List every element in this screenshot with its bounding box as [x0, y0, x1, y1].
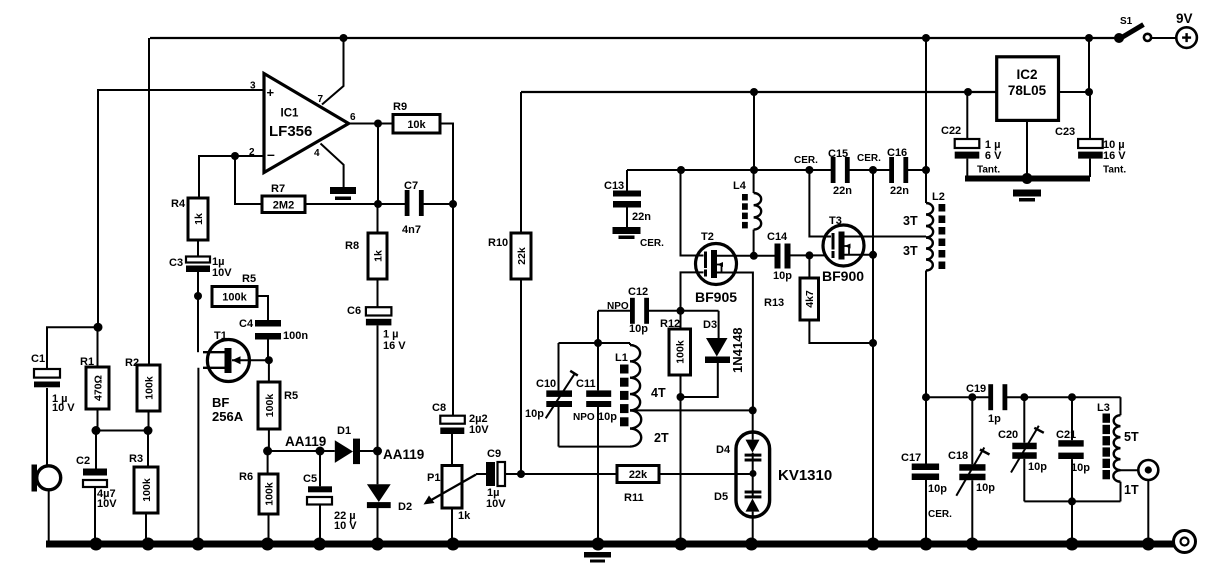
- svg-text:22n: 22n: [833, 185, 852, 197]
- svg-text:R5: R5: [242, 273, 256, 285]
- node R13 ground junction: [869, 339, 877, 347]
- diode D1 AA119: [285, 425, 424, 464]
- node R13 top junction: [805, 251, 813, 259]
- wire R12 top: [680, 311, 682, 329]
- wire ground bus rail: [46, 541, 1174, 548]
- resistor R5 upper: [212, 273, 257, 307]
- svg-text:10p: 10p: [598, 411, 617, 423]
- svg-text:10p: 10p: [1028, 461, 1047, 473]
- wire T1 drain to gate-bias node: [197, 296, 199, 352]
- wire R2 bottom: [148, 411, 150, 431]
- resistor R13: [764, 278, 819, 320]
- capacitor C6: [347, 305, 406, 352]
- svg-text:R13: R13: [764, 297, 784, 309]
- wire C7 right: [422, 203, 454, 205]
- svg-text:D5: D5: [714, 491, 728, 503]
- capacitor C17: [901, 452, 952, 520]
- resistor R1: [80, 356, 109, 409]
- svg-text:R7: R7: [271, 183, 285, 195]
- wire loop bottom to ground: [1071, 501, 1073, 541]
- svg-text:4k7: 4k7: [804, 290, 816, 308]
- wire R13 top: [808, 255, 810, 278]
- wire IC2 common leg: [1026, 121, 1028, 177]
- wire R4-C3: [197, 240, 199, 257]
- wire op-amp pin2 net: [199, 156, 264, 198]
- svg-text:100k: 100k: [143, 376, 155, 400]
- svg-text:C12: C12: [628, 286, 648, 298]
- wire IC2 ground bus: [965, 176, 1090, 182]
- wire S1 to battery: [1151, 37, 1177, 39]
- label L3 turns: [1124, 430, 1139, 497]
- wire 9V drop to IC2: [1088, 38, 1090, 92]
- svg-text:10p: 10p: [976, 482, 995, 494]
- capacitor C15: [794, 148, 852, 197]
- capacitor C7: [402, 180, 424, 236]
- wire output to feedback node: [377, 124, 379, 205]
- trimmer C20: [998, 426, 1047, 473]
- wire oscillator supply rail: [627, 169, 926, 171]
- ground op-amp ground symbol: [330, 187, 356, 200]
- resistor R4: [171, 198, 208, 240]
- wire C10 wires: [558, 343, 560, 447]
- node T2 gate1 junction: [677, 307, 685, 315]
- wire C20 wires: [1023, 397, 1025, 501]
- wire tank to ground: [597, 447, 599, 541]
- svg-text:P1: P1: [427, 472, 440, 484]
- diode D2 AA119: [367, 484, 412, 513]
- resistor R5 lower: [258, 382, 298, 429]
- node detector row left junction: [263, 447, 272, 456]
- wire IC2 input leg: [1059, 91, 1090, 93]
- svg-text:CER.: CER.: [857, 153, 881, 164]
- svg-text:6: 6: [350, 112, 356, 123]
- wire R1 top: [97, 327, 99, 367]
- svg-text:3T: 3T: [903, 214, 918, 228]
- ground C13 ground symbol: [613, 227, 641, 239]
- transistor T2 BF905: [695, 231, 737, 305]
- wire C9 right: [505, 473, 521, 475]
- antenna connector: [1138, 460, 1158, 480]
- svg-text:1 µ: 1 µ: [383, 329, 399, 341]
- svg-text:BF900: BF900: [822, 268, 864, 284]
- wire L4 top: [753, 170, 755, 193]
- wire C12 row: [598, 310, 719, 312]
- inductor L1: [615, 345, 641, 447]
- wire C2 wires: [95, 431, 96, 542]
- svg-text:10p: 10p: [525, 408, 544, 420]
- svg-text:IC2: IC2: [1016, 67, 1037, 82]
- node C5 junction: [316, 447, 325, 456]
- svg-text:78L05: 78L05: [1008, 83, 1047, 98]
- wire C1 top to input node: [47, 327, 98, 368]
- svg-text:C21: C21: [1056, 429, 1076, 441]
- svg-text:10V: 10V: [469, 424, 489, 436]
- wire 9V feed to R2: [148, 38, 150, 365]
- svg-text:22k: 22k: [629, 469, 648, 481]
- svg-text:10V: 10V: [212, 267, 232, 279]
- wire T2 source lead: [717, 273, 753, 411]
- diode D3 1N4148: [703, 319, 745, 373]
- wire 9V top supply rail: [150, 37, 1116, 39]
- wire C14 right to T3 gate1: [791, 254, 832, 256]
- node C7-R9 junction: [449, 200, 457, 208]
- wire R9 to C8 column: [440, 124, 453, 416]
- svg-text:3T: 3T: [903, 244, 918, 258]
- svg-text:10 V: 10 V: [52, 402, 75, 414]
- ground IC2 ground symbol: [1013, 190, 1041, 202]
- wire D3 top lead: [718, 311, 720, 338]
- svg-text:D3: D3: [703, 319, 717, 331]
- wire T2 gate2 to supply: [681, 170, 704, 256]
- svg-text:R12: R12: [660, 318, 680, 330]
- svg-text:470Ω: 470Ω: [92, 375, 104, 401]
- svg-text:BF: BF: [212, 395, 229, 410]
- svg-text:T3: T3: [829, 215, 842, 227]
- wire R10 bottom: [520, 279, 522, 474]
- svg-text:CER.: CER.: [928, 509, 952, 520]
- resistor R6: [239, 471, 278, 514]
- wire op-amp output: [349, 123, 393, 125]
- capacitor C19: [966, 383, 1007, 425]
- wire R7 to C7 row: [305, 203, 407, 205]
- svg-text:22n: 22n: [890, 185, 909, 197]
- svg-text:C9: C9: [487, 448, 501, 460]
- wire L1 top stub: [629, 343, 631, 345]
- capacitor C2: [76, 455, 117, 510]
- wire antenna to ground: [1147, 480, 1149, 541]
- svg-text:5T: 5T: [1124, 430, 1139, 444]
- wire input node to op-amp pin3: [98, 90, 264, 327]
- svg-text:Tant.: Tant.: [977, 165, 1000, 176]
- svg-text:R3: R3: [129, 453, 143, 465]
- svg-text:1k: 1k: [372, 250, 384, 262]
- label L2 turns: [903, 214, 918, 258]
- svg-text:4T: 4T: [651, 386, 666, 400]
- wire L2 bottom to output node: [925, 271, 927, 398]
- wire R3 wires: [146, 431, 148, 542]
- svg-text:10p: 10p: [928, 483, 947, 495]
- svg-text:C4: C4: [239, 318, 254, 330]
- svg-text:C15: C15: [828, 148, 848, 160]
- regulator IC2 78L05: [997, 57, 1059, 121]
- node C3-R5 junction: [194, 292, 202, 300]
- svg-text:100k: 100k: [264, 394, 276, 418]
- resistor R3: [129, 453, 158, 513]
- wire D2 wires: [377, 451, 379, 541]
- wire tank top rail: [559, 342, 631, 344]
- resistor R7: [262, 183, 305, 213]
- svg-text:3: 3: [250, 81, 256, 92]
- resistor R10: [488, 233, 531, 279]
- svg-text:1T: 1T: [1124, 483, 1139, 497]
- node pin7 rail junction: [340, 34, 348, 42]
- transistor T3 BF900: [822, 215, 864, 284]
- wire C14 left: [754, 255, 775, 257]
- wire C13 wires: [626, 170, 628, 227]
- capacitor C12: [607, 286, 649, 335]
- svg-text:R10: R10: [488, 237, 508, 249]
- node IC2 ground junction: [1022, 173, 1033, 184]
- svg-text:100k: 100k: [263, 482, 275, 506]
- terminal 0V output: [1174, 531, 1196, 553]
- svg-text:R5: R5: [284, 390, 298, 402]
- svg-text:10p: 10p: [1071, 462, 1090, 474]
- svg-text:L2: L2: [932, 191, 945, 203]
- svg-text:1p: 1p: [988, 413, 1001, 425]
- svg-text:L4: L4: [733, 180, 747, 192]
- svg-text:R9: R9: [393, 101, 407, 113]
- wire L2 top stub: [925, 170, 927, 203]
- wire R5v top: [268, 360, 270, 382]
- resistor R9: [393, 101, 440, 133]
- svg-text:16 V: 16 V: [1103, 150, 1126, 162]
- svg-text:NPO: NPO: [573, 412, 595, 423]
- wire P1 wiper to C9: [476, 473, 486, 475]
- svg-text:2T: 2T: [654, 431, 669, 445]
- wire R10 top to 5V rail: [520, 92, 522, 233]
- wire L1 tap to varicap: [630, 409, 753, 411]
- svg-text:4: 4: [314, 148, 320, 159]
- svg-text:16 V: 16 V: [383, 340, 406, 352]
- svg-text:6 V: 6 V: [985, 150, 1002, 162]
- svg-text:R8: R8: [345, 240, 359, 252]
- node output junction: [374, 120, 382, 128]
- node 5V-osc junction: [750, 88, 758, 96]
- svg-text:D4: D4: [716, 444, 731, 456]
- svg-text:L1: L1: [615, 352, 628, 364]
- wire output loop bottom: [1024, 500, 1120, 502]
- svg-text:22k: 22k: [516, 247, 528, 265]
- wire T3 gate2 to supply: [809, 170, 831, 237]
- inductor L4: [733, 180, 761, 230]
- capacitor C16: [857, 147, 909, 197]
- wire T1 source to ground: [197, 368, 199, 541]
- svg-text:AA119: AA119: [383, 447, 424, 462]
- wire T1 gate lead: [232, 359, 269, 361]
- capacitor C11: [573, 378, 617, 423]
- capacitor C3: [169, 256, 232, 279]
- wire R13 bottom: [809, 320, 873, 343]
- wire varicap top: [752, 410, 754, 439]
- node T1 gate junction: [265, 356, 273, 364]
- node 9V IC2 junction: [1085, 34, 1093, 42]
- capacitor C14: [767, 231, 792, 282]
- wire C5 wires: [319, 451, 321, 541]
- ground symbol below rail: [584, 552, 611, 563]
- svg-text:S1: S1: [1120, 16, 1133, 27]
- trimmer C10: [525, 371, 578, 420]
- capacitor C13: [604, 180, 664, 249]
- wire L3 top: [1120, 397, 1122, 415]
- svg-text:9V: 9V: [1176, 11, 1193, 26]
- capacitor C5: [303, 473, 357, 532]
- svg-text:T2: T2: [701, 231, 714, 243]
- node D1-D2 junction: [373, 447, 382, 456]
- svg-text:C5: C5: [303, 473, 317, 485]
- capacitor C23: [1055, 126, 1126, 176]
- wire output row: [926, 396, 1121, 398]
- node varicap feed junction: [517, 470, 525, 478]
- svg-text:100k: 100k: [222, 292, 247, 304]
- wire T2 gate1 lead: [681, 272, 704, 310]
- svg-text:R4: R4: [171, 198, 186, 210]
- svg-text:10 V: 10 V: [334, 520, 357, 532]
- svg-text:1k: 1k: [458, 510, 471, 522]
- node T3 source junction: [869, 251, 877, 259]
- battery terminal 9V: [1176, 11, 1197, 48]
- capacitor C1: [31, 353, 75, 414]
- wire IC2 output leg dots: [964, 88, 972, 96]
- node feedback junction: [374, 200, 382, 208]
- inductor L2: [926, 191, 945, 271]
- wire R6 wires: [267, 451, 270, 541]
- svg-text:R11: R11: [624, 492, 644, 504]
- svg-text:4n7: 4n7: [402, 224, 421, 236]
- node pin2 junction: [231, 152, 239, 160]
- wire R12 to ground: [680, 375, 682, 541]
- wire R11 to varicap: [659, 473, 753, 475]
- svg-text:1N4148: 1N4148: [730, 327, 745, 373]
- resistor R8: [345, 233, 387, 279]
- switch S1: [1114, 16, 1151, 43]
- node R12-D3 junction: [677, 393, 685, 401]
- wire 5V regulated rail: [521, 91, 997, 93]
- svg-text:KV1310: KV1310: [778, 467, 832, 484]
- wire C12 to tank: [597, 311, 599, 343]
- svg-text:1k: 1k: [193, 213, 205, 225]
- varicap D4 D5 KV1310: [714, 432, 832, 517]
- wire T3 source lead: [844, 254, 873, 256]
- svg-text:R6: R6: [239, 471, 253, 483]
- capacitor C8: [432, 402, 489, 436]
- svg-text:10V: 10V: [97, 498, 117, 510]
- wire mic to ground: [48, 489, 50, 541]
- svg-text:256A: 256A: [212, 409, 244, 424]
- transistor T1 BF256A: [203, 330, 249, 424]
- wire detector row: [268, 450, 335, 452]
- wire C9 row to R11: [521, 473, 617, 475]
- svg-text:D1: D1: [337, 425, 351, 437]
- svg-text:CER.: CER.: [794, 155, 818, 166]
- svg-text:22n: 22n: [632, 211, 651, 223]
- wire L3 bottom: [1120, 482, 1122, 502]
- svg-text:C19: C19: [966, 383, 986, 395]
- wire L3 tap to antenna: [1121, 469, 1139, 471]
- wire C18 wires: [971, 397, 973, 541]
- potentiometer P1: [424, 466, 477, 523]
- resistor R2: [125, 357, 160, 411]
- svg-text:AA119: AA119: [285, 434, 326, 449]
- wire tank bottom rail: [559, 446, 631, 448]
- svg-text:C1: C1: [31, 353, 45, 365]
- svg-text:10V: 10V: [486, 498, 506, 510]
- wire T2 drain lead: [717, 255, 754, 257]
- svg-text:C11: C11: [576, 378, 596, 390]
- node L2 9V junction: [922, 34, 930, 42]
- wire varicap bottom: [752, 512, 754, 541]
- node bias junction: [92, 426, 153, 435]
- svg-text:CER.: CER.: [640, 238, 664, 249]
- wire varicap mid: [752, 453, 754, 499]
- svg-text:100k: 100k: [675, 340, 687, 364]
- node IC2 input junction: [1085, 88, 1093, 96]
- wire op-amp pin7 to 9V: [322, 38, 344, 105]
- wire C6 to D1 node: [377, 325, 379, 451]
- node loop bottom junction: [1068, 497, 1076, 505]
- wire mic to C1: [46, 388, 48, 466]
- ground rail junction dots: [90, 538, 1155, 551]
- svg-text:C18: C18: [948, 450, 968, 462]
- svg-text:C7: C7: [404, 180, 418, 192]
- wire 5V drop to osc rail: [753, 92, 755, 170]
- wire R5 to C4: [257, 296, 268, 320]
- node tank top junction: [594, 339, 602, 347]
- svg-text:D2: D2: [398, 501, 412, 513]
- label L1 turns: [651, 386, 669, 445]
- svg-text:T1: T1: [214, 330, 227, 342]
- microphone MIC: [32, 465, 61, 492]
- wire C15-C16 ground column: [872, 170, 874, 541]
- wire R1 bottom: [97, 409, 99, 431]
- svg-text:C23: C23: [1055, 126, 1075, 138]
- svg-text:C22: C22: [941, 125, 961, 137]
- wire L2 feed from 9V: [925, 38, 927, 170]
- svg-text:C8: C8: [432, 402, 446, 414]
- wire C22 wires: [966, 92, 968, 177]
- capacitor C21: [1056, 429, 1090, 474]
- node osc rail dots: [677, 166, 930, 174]
- svg-text:BF905: BF905: [695, 289, 737, 305]
- inductor L3: [1097, 402, 1121, 482]
- capacitor C9: [486, 448, 506, 510]
- svg-text:10p: 10p: [629, 323, 648, 335]
- wire D3 bottom lead: [681, 363, 718, 397]
- svg-text:C10: C10: [536, 378, 556, 390]
- wire D1 to column: [360, 450, 378, 452]
- wire R7 left leg: [235, 156, 262, 204]
- svg-text:IC1: IC1: [281, 108, 300, 120]
- svg-text:L3: L3: [1097, 402, 1110, 414]
- svg-text:LF356: LF356: [269, 123, 312, 140]
- wire C23 wires: [1089, 92, 1091, 177]
- svg-text:C17: C17: [901, 452, 921, 464]
- wire C4 bottom: [267, 340, 269, 361]
- svg-text:10p: 10p: [773, 270, 792, 282]
- node input junction: [94, 323, 103, 332]
- wire C21 wires: [1071, 397, 1073, 501]
- svg-text:R2: R2: [125, 357, 139, 369]
- svg-text:10k: 10k: [407, 119, 426, 131]
- node tap junction: [749, 406, 757, 414]
- svg-text:C3: C3: [169, 257, 183, 269]
- wire R8 top: [377, 204, 379, 233]
- svg-text:+: +: [267, 85, 275, 100]
- resistor R11: [617, 466, 659, 505]
- svg-text:C14: C14: [767, 231, 788, 243]
- wire R5v bottom: [268, 429, 270, 451]
- svg-text:R1: R1: [80, 356, 94, 368]
- wire P1 to ground: [451, 508, 453, 541]
- capacitor C4: [239, 318, 308, 342]
- wire T3 drain to L2 tap: [844, 236, 926, 238]
- svg-text:C20: C20: [998, 429, 1018, 441]
- trimmer C18: [948, 448, 995, 496]
- svg-text:100n: 100n: [283, 330, 308, 342]
- wire R8 to C6: [377, 279, 379, 307]
- svg-text:C16: C16: [887, 147, 907, 159]
- wire C11 wires: [597, 343, 599, 447]
- svg-text:2M2: 2M2: [273, 199, 294, 211]
